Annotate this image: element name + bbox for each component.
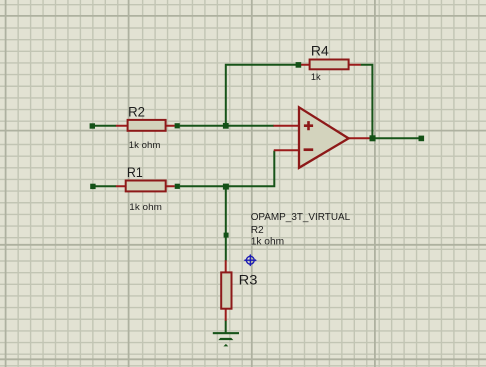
svg-text:R2: R2 bbox=[251, 225, 264, 236]
svg-text:1k ohm: 1k ohm bbox=[129, 202, 162, 212]
svg-text:1k ohm: 1k ohm bbox=[251, 237, 284, 248]
svg-text:1k ohm: 1k ohm bbox=[129, 140, 161, 150]
svg-text:1k: 1k bbox=[311, 72, 321, 82]
svg-text:R3: R3 bbox=[239, 272, 258, 288]
svg-text:R2: R2 bbox=[128, 103, 145, 119]
svg-text:OPAMP_3T_VIRTUAL: OPAMP_3T_VIRTUAL bbox=[251, 212, 351, 223]
svg-text:R1: R1 bbox=[127, 164, 143, 180]
svg-text:R4: R4 bbox=[311, 42, 329, 58]
